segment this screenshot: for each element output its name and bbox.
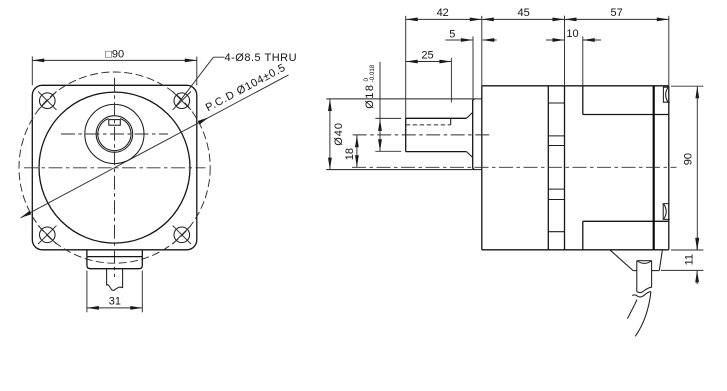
- body bottom edge: [482, 249, 669, 251]
- svg-text:4-Ø8.5 THRU: 4-Ø8.5 THRU: [225, 52, 298, 64]
- dimension 31: arrowheads: [87, 306, 142, 310]
- shaft centerline (side view): [353, 134, 491, 136]
- label diam18 with tolerance: [363, 64, 376, 109]
- dimension 31: extension lines: [86, 271, 88, 313]
- cable tail right arc: [635, 292, 651, 337]
- svg-text:31: 31: [109, 296, 121, 308]
- shaft outer circle: [96, 116, 133, 153]
- top dims extension line at motor flange: [564, 16, 566, 86]
- svg-text:25: 25: [421, 49, 433, 61]
- gearbox front face: [481, 86, 483, 250]
- dim 25: extension line at keyway end: [450, 58, 452, 103]
- leader 4-diam8.5 THRU: [176, 57, 225, 106]
- rear cover clip top: [663, 87, 669, 102]
- svg-text:-0.018: -0.018: [369, 64, 376, 82]
- svg-text:18: 18: [344, 148, 356, 160]
- cable gland bottom right segment: [652, 270, 659, 272]
- pilot boss face: [473, 99, 475, 170]
- svg-text:5: 5: [449, 29, 455, 41]
- cable right edge: [651, 261, 653, 288]
- P.C.D leader arrowheads: [21, 117, 209, 217]
- flange outline (90mm square, rounded corners): [32, 85, 197, 250]
- cable stem left edge: [106, 269, 108, 286]
- cable gland left slant: [610, 250, 633, 271]
- svg-text:Ø18: Ø18: [364, 84, 376, 109]
- cable break wave lower: [632, 292, 651, 298]
- motor case step top vertical: [582, 86, 584, 115]
- dim 11: extension line bottom: [661, 269, 704, 271]
- dim 25: arrowheads: [406, 60, 452, 64]
- keyway end step: [450, 118, 452, 125]
- motor flange front line: [564, 86, 566, 250]
- shaft bore circle: [98, 118, 131, 150]
- dim 90: arrowheads: [695, 86, 699, 250]
- svg-text:45: 45: [517, 7, 529, 19]
- dim 25: dimension line: [406, 61, 452, 63]
- mounting hole top-left: [38, 92, 56, 110]
- cable stem right edge: [122, 269, 124, 288]
- shaft-to-boss flare bottom: [467, 152, 473, 158]
- dim diam18: arrowheads: [378, 119, 382, 151]
- body top edge: [482, 85, 669, 87]
- dim diam18: dimension line: [379, 62, 381, 152]
- P.C.D diameter leader line: [21, 75, 289, 218]
- svg-text:57: 57: [610, 7, 622, 19]
- dim diam40: dimension line: [329, 99, 331, 170]
- top dims extension line at shaft end: [405, 16, 407, 119]
- dim 11: dimension lines (outside): [696, 238, 698, 250]
- svg-text:42: 42: [437, 7, 449, 19]
- dim 90: dimension line: [696, 86, 698, 250]
- svg-text:90: 90: [682, 153, 694, 165]
- svg-text:10: 10: [566, 28, 578, 40]
- dim 10: dimension lines: [546, 39, 565, 41]
- terminal cover under flange: [87, 250, 142, 269]
- cable gland nut arc: [637, 261, 651, 263]
- output shaft top edge: [406, 117, 467, 119]
- horizontal centerline (flange center): [24, 167, 206, 169]
- dim 90: extension line top: [671, 85, 703, 87]
- dimension square-90: arrowheads: [32, 59, 197, 63]
- joint band bolt line 6: [548, 231, 564, 233]
- joint band bolt line 4: [548, 188, 564, 190]
- output shaft end face: [405, 118, 407, 151]
- dim 5: dimension lines: [445, 39, 473, 41]
- svg-text:11: 11: [684, 254, 696, 265]
- dim 5: extension line at boss face: [472, 36, 474, 99]
- keyway slot: [109, 120, 121, 126]
- dim 11: extension line top: [671, 249, 703, 251]
- dim diam40: arrowheads: [328, 99, 332, 170]
- dim 18: dimension line: [356, 135, 358, 167]
- dimension square-90: extension lines: [31, 57, 33, 86]
- mounting hole bottom-right: [173, 226, 191, 244]
- rear end face: [668, 86, 670, 250]
- cable tail left arc: [627, 300, 637, 319]
- shaft-to-boss flare top: [467, 112, 473, 118]
- mounting hole top-right: [173, 92, 191, 110]
- dimension 31: dimension line: [87, 307, 142, 309]
- joint band bolt line 1: [548, 102, 564, 104]
- svg-text:□90: □90: [105, 49, 124, 61]
- boss top edge with diam40 extension: [326, 98, 481, 100]
- joint band bolt line 5: [548, 199, 564, 201]
- dim 10: extension line at step: [582, 36, 584, 85]
- cable gland bottom left segment: [633, 270, 637, 272]
- motor case step top horizontal: [583, 114, 669, 116]
- body centerline (side view): [352, 166, 677, 168]
- motor case step bottom vertical: [582, 221, 584, 250]
- motor body circle: [39, 92, 190, 243]
- cable gland right slant: [659, 250, 662, 271]
- vertical centerline: [114, 78, 116, 277]
- rear cover thick joint line: [653, 86, 655, 250]
- svg-text:Ø40: Ø40: [333, 122, 345, 146]
- rear cover clip bottom: [663, 204, 670, 220]
- top dims extension line at rear face: [668, 16, 670, 86]
- shaft horizontal centerline: [61, 133, 168, 135]
- joint band bolt line 3: [548, 145, 564, 147]
- cable stem break wave: [107, 285, 123, 291]
- cable gland nut top: [637, 260, 652, 262]
- gearbox rear joint line: [547, 86, 549, 250]
- dimension square-90: dimension line: [32, 59, 197, 61]
- cable left edge: [636, 261, 638, 292]
- motor case step bottom horizontal: [583, 220, 669, 222]
- top dims extension line at gearbox face: [481, 16, 483, 86]
- mounting hole bottom-left: [38, 226, 56, 244]
- top dims arrowheads: [406, 18, 669, 22]
- joint band bolt line 2: [548, 135, 564, 137]
- output shaft bottom edge: [406, 151, 467, 153]
- dim diam18: extension ticks: [375, 117, 401, 119]
- top dimension line 42/45/57: [406, 18, 669, 20]
- boss bottom edge with diam40 extension: [326, 169, 481, 171]
- bearing boss circle: [85, 104, 144, 163]
- cable break wave upper: [637, 287, 652, 292]
- dim 5: arrowheads: [461, 38, 494, 42]
- dim 10: arrowheads: [553, 38, 595, 42]
- dim 18: arrowheads: [355, 135, 359, 167]
- P.C.D dashed circle (bolt circle 104): [19, 72, 210, 263]
- dim 11: arrowheads: [695, 238, 699, 282]
- keyway hidden line: [406, 124, 451, 126]
- terminal cover inner line: [87, 256, 142, 258]
